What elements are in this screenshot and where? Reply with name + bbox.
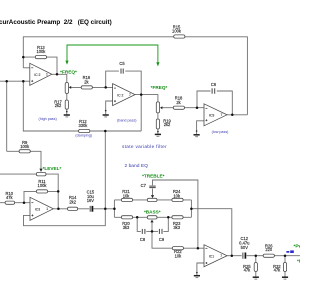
svg-text:IC3: IC3 — [209, 114, 214, 118]
svg-text:1: 1 — [46, 73, 48, 77]
svg-text:100k: 100k — [172, 29, 182, 34]
svg-text:*FREQ*: *FREQ* — [151, 85, 168, 90]
svg-text:C5: C5 — [119, 61, 125, 66]
svg-text:2 band EQ: 2 band EQ — [125, 163, 149, 169]
svg-text:7: 7 — [220, 254, 222, 258]
svg-text:2k2: 2k2 — [69, 199, 76, 204]
svg-text:47k: 47k — [274, 268, 282, 273]
svg-text:50V: 50V — [241, 245, 249, 250]
svg-text:2k2: 2k2 — [55, 103, 62, 108]
svg-text:10k: 10k — [175, 253, 183, 258]
svg-text:10k: 10k — [173, 193, 181, 198]
svg-text:(high pass): (high pass) — [38, 117, 56, 121]
svg-text:7: 7 — [221, 113, 223, 117]
svg-text:*TREBLE*: *TREBLE* — [142, 173, 165, 178]
svg-text:3k3: 3k3 — [123, 225, 130, 230]
svg-text:100k: 100k — [36, 49, 46, 54]
svg-text:10k: 10k — [123, 193, 131, 198]
svg-text:IC1: IC1 — [209, 255, 214, 259]
svg-text:47k: 47k — [244, 268, 252, 273]
svg-text:*B: *B — [297, 258, 300, 263]
svg-text:2k2: 2k2 — [164, 122, 171, 127]
svg-text:C6: C6 — [211, 82, 217, 87]
svg-text:1: 1 — [46, 207, 48, 211]
svg-text:*BASS*: *BASS* — [144, 210, 161, 215]
svg-text:100k: 100k — [20, 144, 30, 149]
svg-text:C9: C9 — [159, 237, 165, 242]
svg-text:IC 2: IC 2 — [34, 73, 40, 77]
svg-text:*LEVEL*: *LEVEL* — [43, 166, 62, 171]
svg-text:47k: 47k — [6, 195, 14, 200]
svg-text:100k: 100k — [38, 183, 48, 188]
svg-text:(band pass): (band pass) — [117, 118, 136, 122]
svg-text:*FREQ*: *FREQ* — [60, 69, 77, 74]
svg-text:C8: C8 — [140, 237, 146, 242]
svg-text:curAcoustic Preamp 2/2 (EQ: curAcoustic Preamp 2/2 (EQ circuit) — [0, 19, 112, 26]
svg-text:3k3: 3k3 — [173, 225, 180, 230]
svg-text:(low pass): (low pass) — [212, 130, 229, 134]
svg-text:state variable filter: state variable filter — [122, 144, 167, 149]
svg-text:IC3: IC3 — [35, 208, 40, 212]
svg-text:16V: 16V — [87, 198, 95, 203]
svg-text:220: 220 — [265, 247, 273, 252]
svg-text:C7: C7 — [141, 183, 147, 188]
svg-text:(damping): (damping) — [75, 134, 92, 138]
svg-text:330k: 330k — [78, 123, 88, 128]
svg-text:*Pw: *Pw — [294, 243, 301, 248]
svg-text:IC 2: IC 2 — [117, 93, 123, 97]
svg-text:7: 7 — [129, 93, 131, 97]
